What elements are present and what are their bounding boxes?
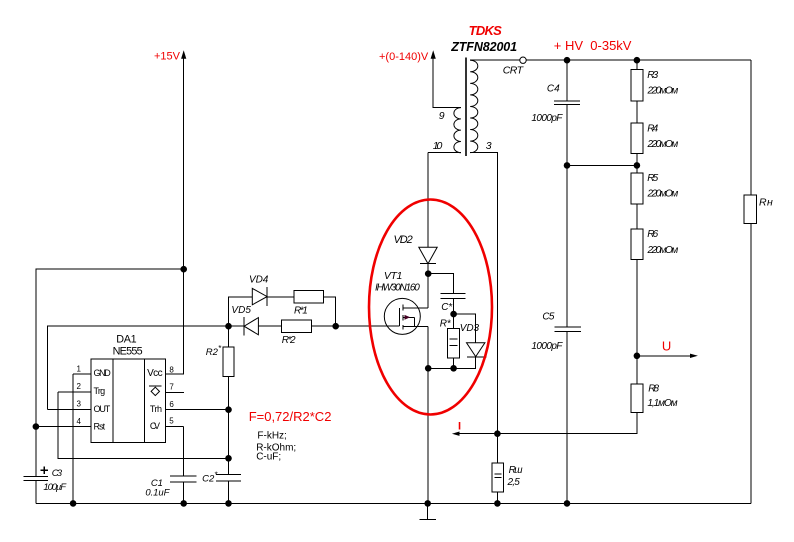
diode VD4 xyxy=(249,275,269,306)
capacitor C4 xyxy=(531,84,580,124)
pin 7 stub open xyxy=(166,383,184,393)
svg-text:R2*: R2* xyxy=(206,344,222,358)
wire VD3 bottom to source net xyxy=(428,357,476,369)
wire C* to R* xyxy=(453,299,455,329)
U arrow xyxy=(637,338,698,358)
node C1-ground xyxy=(180,500,187,507)
wire VD4 to R*1 xyxy=(267,296,294,298)
wire C5 bottom to ground rail xyxy=(566,332,568,504)
svg-text:1: 1 xyxy=(77,365,82,374)
resistor Rsh shunt xyxy=(492,463,523,492)
wire C2 to ground rail xyxy=(228,481,230,503)
node Trg-C2 xyxy=(225,455,232,462)
svg-text:+(0-140)V: +(0-140)V xyxy=(379,51,429,63)
svg-text:VD3: VD3 xyxy=(460,323,480,334)
node +15V branch junction xyxy=(180,266,187,273)
capacitor C5 xyxy=(531,312,580,352)
resistor R5 xyxy=(631,173,679,204)
svg-text:C*: C* xyxy=(441,302,453,313)
svg-text:IHW30N160: IHW30N160 xyxy=(375,283,420,294)
svg-text:C2*: C2* xyxy=(202,471,218,485)
svg-text:Rн: Rн xyxy=(759,197,773,209)
svg-text:Rst: Rst xyxy=(94,422,106,432)
svg-text:GND: GND xyxy=(94,368,112,378)
svg-text:3: 3 xyxy=(77,400,82,409)
+15V supply arrow xyxy=(154,50,186,62)
svg-text:CV: CV xyxy=(150,421,160,431)
svg-text:220мОм: 220мОм xyxy=(647,85,679,96)
resistor R2* xyxy=(206,344,234,377)
wire ground rail xyxy=(36,502,751,504)
resistor R4 xyxy=(631,123,679,154)
wire Rn to ground rail xyxy=(750,224,752,504)
wire C4 bottom to mid node xyxy=(566,105,568,166)
resistor R* xyxy=(440,319,460,359)
wire R*1 down to gate node xyxy=(324,297,336,326)
svg-text:R8: R8 xyxy=(648,383,659,394)
wire C3 bottom to ground rail xyxy=(35,480,37,503)
wire R3-R4 xyxy=(636,101,638,123)
svg-text:10: 10 xyxy=(433,140,443,152)
svg-text:9: 9 xyxy=(439,110,445,122)
svg-text:6: 6 xyxy=(169,400,174,409)
svg-text:7: 7 xyxy=(169,383,174,392)
svg-text:R*2: R*2 xyxy=(282,335,296,346)
svg-text:OUT: OUT xyxy=(94,404,111,414)
red highlight ellipse xyxy=(369,200,492,415)
node C*-R* xyxy=(450,311,457,318)
svg-text:220мОм: 220мОм xyxy=(647,189,679,200)
node R3 top xyxy=(634,57,641,64)
svg-text:5: 5 xyxy=(169,417,174,426)
svg-text:2: 2 xyxy=(77,382,82,391)
svg-text:TDKS: TDKS xyxy=(469,23,503,38)
svg-text:Trg: Trg xyxy=(94,386,106,396)
wire C4 top xyxy=(566,60,568,101)
svg-text:R4: R4 xyxy=(647,123,658,134)
wire VD3 branch xyxy=(454,314,476,343)
svg-text:R*1: R*1 xyxy=(294,306,308,317)
svg-text:220мОм: 220мОм xyxy=(647,139,679,150)
pin 3 stub OUT xyxy=(48,400,92,410)
node Rst junction xyxy=(33,423,40,430)
svg-text:VD2: VD2 xyxy=(394,234,413,246)
wire Trg pin to C2 node xyxy=(58,392,229,458)
pin 6 stub Trh xyxy=(166,400,229,410)
wire transformer pin10 down to VD2 xyxy=(427,153,429,248)
wire OUT pin up and right to diode node xyxy=(48,326,229,409)
wire C* branch xyxy=(428,274,453,294)
node C4 bottom xyxy=(564,162,571,169)
node C4 top xyxy=(564,57,571,64)
wire C1 to ground rail xyxy=(183,482,185,503)
wire diode node down to R2 xyxy=(228,326,230,347)
wire pin 10 xyxy=(428,152,461,154)
svg-text:C5: C5 xyxy=(542,312,554,323)
wire source down to ground rail xyxy=(427,326,429,503)
wire R4 to node xyxy=(636,154,638,173)
wire VD5 to R*2 xyxy=(258,325,281,327)
wire drain up to VD2 node xyxy=(427,264,429,308)
capacitor C3 xyxy=(24,467,68,493)
node R4-R5 xyxy=(634,162,641,169)
diode VD5 xyxy=(231,305,258,336)
svg-text:C4: C4 xyxy=(547,84,560,95)
node source-bottom xyxy=(425,365,432,372)
wire Rsh to ground rail xyxy=(496,492,498,503)
wire CV pin down to C1 xyxy=(183,427,185,476)
wire R8 bottom to I line xyxy=(460,412,637,433)
transistor VT1 mosfet xyxy=(375,270,428,334)
wire secondary top to CRT terminal xyxy=(470,59,520,61)
transformer secondary winding xyxy=(470,60,478,152)
resistor R*1 xyxy=(294,291,324,317)
svg-text:C-uF;: C-uF; xyxy=(256,452,281,463)
node U tap xyxy=(634,353,641,360)
svg-text:ZTFN82001: ZTFN82001 xyxy=(450,40,517,54)
wire C4 node to divider node xyxy=(567,164,637,166)
svg-text:R3: R3 xyxy=(647,70,658,81)
pin 2 stub Trg xyxy=(58,382,91,392)
discharge transistor symbol inside DA1 xyxy=(149,386,161,396)
capacitor C* xyxy=(441,294,466,313)
op-amp U1 : IC DA1 NE555 body xyxy=(91,333,166,442)
wire HV top rail xyxy=(526,59,751,61)
resistor R*2 xyxy=(281,320,311,346)
transformer primary winding xyxy=(454,108,461,153)
wire GND pin to ground rail xyxy=(72,374,74,503)
svg-text:U: U xyxy=(662,338,671,353)
node C5-ground xyxy=(564,500,571,507)
wire R*2 to gate node xyxy=(312,325,336,327)
wire R* bottom xyxy=(453,358,455,368)
svg-text:+ HV 0-35kV: + HV 0-35kV xyxy=(554,38,632,53)
node I-Rsh xyxy=(494,430,501,437)
svg-text:Rш: Rш xyxy=(509,465,524,476)
svg-text:Trh: Trh xyxy=(150,404,162,414)
node OUT-diodes xyxy=(225,323,232,330)
svg-text:C3: C3 xyxy=(52,468,63,479)
I arrow xyxy=(452,421,461,436)
wire R6 down to U node xyxy=(636,260,638,384)
resistor R6 xyxy=(631,229,679,259)
wire VD4 branch up corner xyxy=(229,297,253,326)
pin 5 stub CV xyxy=(166,417,184,427)
svg-text:1,1мОм: 1,1мОм xyxy=(647,398,677,409)
svg-text:R*: R* xyxy=(440,319,452,330)
svg-text:8: 8 xyxy=(169,365,174,374)
svg-text:2,5: 2,5 xyxy=(507,477,521,488)
wire R5-R6 xyxy=(636,204,638,229)
transformer T1 TDKS core xyxy=(465,58,467,157)
diode VD2 xyxy=(394,234,438,264)
node source-ground xyxy=(424,500,431,507)
node Trh-R2 xyxy=(225,406,232,413)
wire R3 top stub xyxy=(636,60,638,69)
svg-text:R6: R6 xyxy=(647,229,658,240)
svg-text:220мОм: 220мОм xyxy=(647,245,679,256)
CRT terminal circle xyxy=(503,57,527,77)
node gate xyxy=(332,323,339,330)
svg-text:R5: R5 xyxy=(647,173,658,184)
svg-text:4: 4 xyxy=(77,417,82,426)
node C2-ground xyxy=(225,500,232,507)
svg-text:Vcc: Vcc xyxy=(147,368,163,379)
svg-text:CRT: CRT xyxy=(503,65,525,77)
svg-text:0.1uF: 0.1uF xyxy=(145,488,170,499)
resistor R8 xyxy=(631,383,678,412)
node VD2-C* xyxy=(425,270,432,277)
capacitor C2* xyxy=(202,471,241,485)
node Rsh-ground xyxy=(494,500,501,507)
svg-text:VT1: VT1 xyxy=(384,270,402,282)
wire R2 bottom through Trh node to C2 xyxy=(228,377,230,475)
supply arrow +(0-140)V xyxy=(379,50,436,63)
svg-text:1000pF: 1000pF xyxy=(531,341,563,352)
svg-text:DA1: DA1 xyxy=(116,333,136,345)
wire pin 9 to supply arrow xyxy=(433,53,461,108)
wire gate node to transistor xyxy=(336,325,400,327)
wire +15V branch left to Rst rail xyxy=(36,269,184,476)
wire Rn branch down xyxy=(750,60,752,195)
wire C4 node down to C5 xyxy=(566,165,568,327)
svg-text:F-kHz;: F-kHz; xyxy=(257,430,286,441)
diode VD3 xyxy=(460,323,487,357)
node R*-bottom xyxy=(450,365,457,372)
svg-text:100µF: 100µF xyxy=(43,482,67,493)
wire diode node to VD5 xyxy=(229,325,245,327)
svg-text:I: I xyxy=(458,421,461,433)
svg-text:VD4: VD4 xyxy=(249,275,269,286)
wire secondary bottom pin 3 down xyxy=(470,153,497,463)
capacitor C1 xyxy=(145,476,196,499)
ground symbol xyxy=(420,503,436,519)
svg-text:3: 3 xyxy=(486,140,492,152)
node GND-ground xyxy=(70,500,77,507)
svg-text:+15V: +15V xyxy=(154,51,181,63)
pin 4 stub Rst xyxy=(36,417,91,427)
svg-text:1000pF: 1000pF xyxy=(531,113,563,124)
svg-text:NE555: NE555 xyxy=(113,346,143,358)
svg-text:F=0,72/R2*C2: F=0,72/R2*C2 xyxy=(249,409,332,424)
svg-text:VD5: VD5 xyxy=(231,305,251,316)
resistor Rn load xyxy=(744,195,773,224)
wire +15V vertical rail to Vcc xyxy=(166,53,184,374)
resistor R3 xyxy=(631,70,679,102)
pin 1 stub GND xyxy=(73,365,91,375)
